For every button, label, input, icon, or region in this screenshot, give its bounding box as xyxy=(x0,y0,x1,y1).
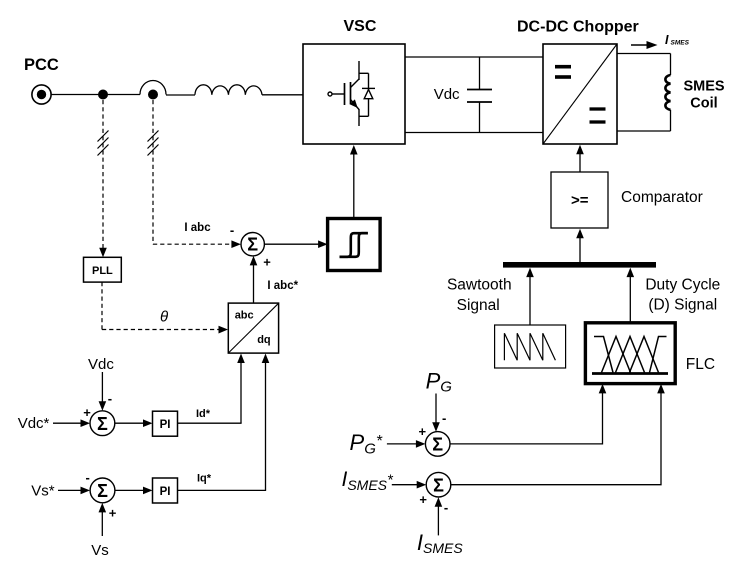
svg-text:VSC: VSC xyxy=(344,18,377,35)
svg-text:+: + xyxy=(419,424,427,439)
svg-text:Iq*: Iq* xyxy=(197,473,212,485)
svg-text:Σ: Σ xyxy=(433,475,444,495)
svg-text:-: - xyxy=(444,500,448,515)
svg-text:PI: PI xyxy=(160,419,171,431)
svg-text:Vs: Vs xyxy=(91,542,109,559)
svg-text:(D) Signal: (D) Signal xyxy=(648,297,717,314)
svg-text:DC-DC Chopper: DC-DC Chopper xyxy=(517,18,639,35)
svg-text:θ: θ xyxy=(160,309,168,326)
svg-text:>=: >= xyxy=(571,192,589,209)
svg-text:dq: dq xyxy=(257,334,270,346)
svg-text:+: + xyxy=(109,506,117,521)
svg-text:Id*: Id* xyxy=(196,408,211,420)
svg-text:-: - xyxy=(230,222,234,237)
svg-text:Comparator: Comparator xyxy=(621,189,703,206)
svg-text:Duty Cycle: Duty Cycle xyxy=(645,277,720,294)
svg-text:Vdc*: Vdc* xyxy=(18,415,50,432)
svg-text:Σ: Σ xyxy=(247,235,258,255)
svg-text:Vdc: Vdc xyxy=(434,86,460,103)
svg-text:Signal: Signal xyxy=(457,297,500,314)
svg-text:PLL: PLL xyxy=(92,265,113,277)
svg-text:Σ: Σ xyxy=(97,481,108,501)
svg-text:I abc: I abc xyxy=(184,222,211,234)
svg-text:PI: PI xyxy=(160,486,171,498)
svg-text:+: + xyxy=(83,405,91,420)
svg-text:+: + xyxy=(419,492,427,507)
svg-text:-: - xyxy=(108,391,112,406)
svg-text:Vs*: Vs* xyxy=(31,483,55,500)
svg-text:-: - xyxy=(86,470,90,485)
svg-text:Σ: Σ xyxy=(97,414,108,434)
svg-text:Vdc: Vdc xyxy=(88,356,114,373)
svg-text:FLC: FLC xyxy=(686,356,715,373)
svg-text:-: - xyxy=(442,411,446,426)
svg-text:SMES: SMES xyxy=(683,79,724,95)
svg-text:Sawtooth: Sawtooth xyxy=(447,277,512,294)
svg-text:abc: abc xyxy=(235,309,254,321)
svg-text:+: + xyxy=(263,254,271,269)
svg-text:Σ: Σ xyxy=(432,435,443,455)
svg-text:Coil: Coil xyxy=(690,96,717,112)
svg-text:PCC: PCC xyxy=(24,56,59,74)
svg-text:I abc*: I abc* xyxy=(267,280,298,292)
